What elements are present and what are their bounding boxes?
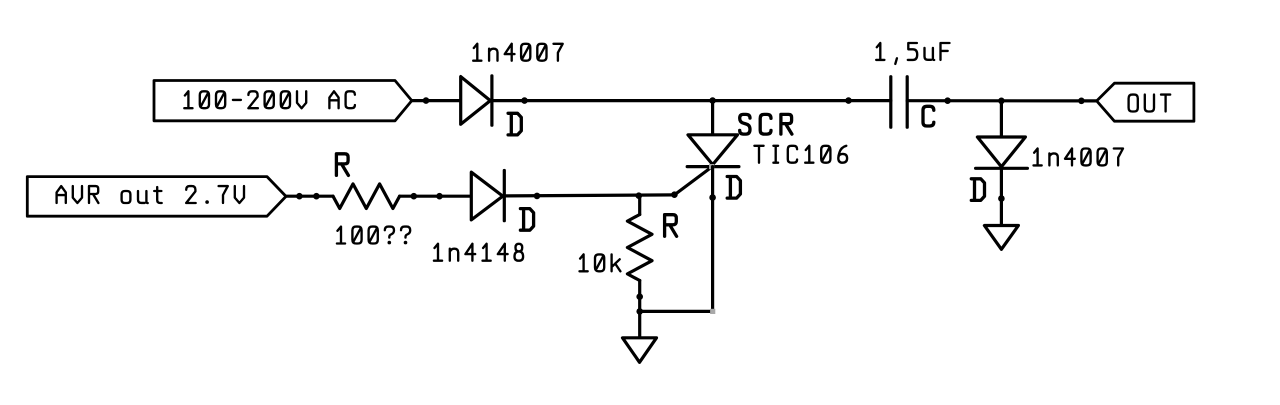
junction node R2 top [636, 192, 643, 199]
junction [1078, 98, 1085, 105]
flag net OUT [1097, 83, 1194, 121]
diode D4 1n4007 [977, 137, 1025, 167]
wire SCR cathode down [711, 167, 714, 312]
label SCR pin D [727, 177, 740, 199]
label SCR value TIC106 [754, 146, 847, 163]
diode D1 cathode bar [490, 76, 493, 125]
junction [636, 293, 643, 300]
diode D2 1n4148 [471, 172, 503, 220]
junction node D4 anode [998, 98, 1005, 105]
wire D1 to capacitor C [492, 99, 891, 102]
net label AVR out 2.7V [57, 186, 244, 203]
label D2 name D [520, 209, 533, 231]
net label 100-200V AC [184, 91, 355, 108]
diode D2 cathode bar [503, 171, 506, 221]
capacitor C plate left [889, 77, 892, 128]
flag net AVR out 2.7V [27, 177, 286, 217]
label R2 value 10k [580, 254, 621, 271]
diode D1 [461, 77, 491, 125]
SCR U1 triangle [688, 135, 738, 165]
resistor R2 10k [627, 215, 652, 281]
wire R2 bottom to ground [638, 281, 641, 338]
label R2 name R [665, 215, 677, 237]
junction [411, 193, 418, 200]
label D2 value 1n4148 [434, 244, 523, 261]
label D4 name D [971, 179, 984, 201]
label D1 value 1n4007 [473, 44, 563, 61]
junction [313, 193, 320, 200]
SCR gate wire [674, 167, 712, 195]
capacitor C plate right [906, 77, 909, 128]
ground GND2 [984, 226, 1018, 250]
flag net 100-200V AC [154, 81, 412, 121]
junction [436, 193, 443, 200]
junction node gate [671, 191, 678, 198]
wire SCR anode [711, 101, 714, 135]
label D4 value 1n4007 [1034, 149, 1124, 166]
wire capacitor C to OUT flag [907, 99, 1096, 102]
junction [534, 193, 541, 200]
junction [845, 97, 852, 104]
wire R1 to D2 [400, 195, 472, 198]
resistor R1 100?? [333, 184, 400, 209]
wire AC flag to D1 [412, 99, 461, 102]
label C value 1,5uF [876, 43, 949, 64]
junction [423, 97, 430, 104]
wire D4 to ground [1000, 168, 1003, 225]
wire AVR flag to R1 [286, 195, 333, 198]
junction on cathode wire [709, 194, 716, 201]
selection mark at wire corner [710, 309, 715, 314]
label R1 value 100?? [337, 227, 410, 244]
wire R2 top stub [638, 196, 641, 215]
wire SCR cathode to ground net [640, 310, 713, 313]
junction node SCR anode [709, 97, 716, 104]
junction node ground net [636, 308, 643, 315]
junction [944, 97, 951, 104]
label D1 name D [508, 113, 521, 135]
wire top rail to D4 [1000, 101, 1003, 137]
junction [521, 97, 528, 104]
junction [296, 193, 303, 200]
label C name [923, 106, 934, 126]
diode D4 cathode bar [976, 167, 1028, 170]
wire D2 to SCR gate [504, 195, 674, 196]
junction [998, 195, 1005, 202]
SCR U1 cathode bar [687, 165, 739, 168]
selection mark at SCR cathode [709, 164, 714, 169]
label SCR name [740, 114, 792, 134]
label R1 name R [336, 154, 348, 176]
net label OUT [1129, 95, 1171, 112]
ground GND1 [623, 338, 657, 363]
